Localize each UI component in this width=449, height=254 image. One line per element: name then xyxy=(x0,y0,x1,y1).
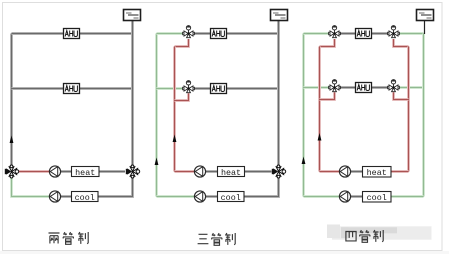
3-way valve V4 (panel2 row2) xyxy=(183,81,195,93)
wire: panel2 heat pump to heat box xyxy=(206,170,218,173)
3-way valve V3 (panel2 row1) xyxy=(183,26,195,38)
wire: panel3 red drop row1 left xyxy=(320,39,335,47)
wire: panel3 red right vertical xyxy=(407,47,410,172)
wire: panel1 left supply vertical xyxy=(10,34,13,167)
wire: panel2 valve2 to AHU2 xyxy=(194,87,211,90)
cool source box (panel3) xyxy=(363,192,392,204)
svg-text:heat: heat xyxy=(75,168,95,178)
char ZHI xyxy=(225,233,235,245)
wire: panel2 common return vertical xyxy=(277,21,280,167)
AHU box (panel2 row2) xyxy=(211,84,227,94)
wire: panel3 green from cool box to right vertical xyxy=(391,195,424,198)
wire: panel1 hot supply stub (red) xyxy=(14,170,50,173)
3-way valve V8 (panel3 row1 right) xyxy=(388,26,400,38)
cool source box (panel1) xyxy=(72,192,99,204)
watermark dark tab xyxy=(341,227,349,238)
wire: panel2 green supply vertical xyxy=(155,34,158,197)
wire: panel2 red supply vertical xyxy=(173,47,176,172)
wire: panel3 tank stem xyxy=(424,21,426,35)
wire: panel1 heat pump to heat box xyxy=(61,170,72,173)
flow arrow (panel2 green) xyxy=(155,158,159,166)
wire: panel1 second row horizontal xyxy=(12,87,133,90)
svg-text:cool: cool xyxy=(221,193,241,203)
wire: panel3 red drop row1 right xyxy=(394,39,409,47)
wire: panel3 green to cool pump xyxy=(304,195,340,198)
label: two-pipe system (CJK glyph strokes) xyxy=(49,232,89,244)
svg-text:heat: heat xyxy=(367,168,387,178)
wire: panel2 cool box to valve riser xyxy=(244,178,279,197)
wire: panel2 valve1 to AHU1 xyxy=(194,32,211,35)
char GUAN xyxy=(212,233,223,245)
3-way valve V6 (panel3 row1 left) xyxy=(329,26,341,38)
4-way valve V2 (panel1 right) xyxy=(126,165,140,178)
expansion tank T1 xyxy=(124,10,141,21)
pump P5 heat (panel3) xyxy=(339,166,350,177)
wire: panel2 red branch row2 xyxy=(175,93,189,100)
wire: panel1 heat box to right valve xyxy=(99,170,125,173)
wire: panel3 valveL2 to AHU2 xyxy=(340,86,356,89)
wire: panel2 green row1 stub xyxy=(157,32,184,35)
label: four-pipe system (CJK glyph strokes) xyxy=(346,230,383,242)
char ZHI xyxy=(78,232,88,244)
4-way valve V1 (panel1 left) xyxy=(5,165,19,178)
wire: panel3 red left vertical xyxy=(318,47,321,172)
wire: panel2 cool pump to cool box xyxy=(206,195,218,198)
wire: panel2 AHU2 to return xyxy=(227,87,279,90)
3-way valve V9 (panel3 row2 right) xyxy=(388,80,400,92)
AHU box (panel1 row1) xyxy=(64,29,80,39)
char GUAN xyxy=(360,230,371,242)
wire: panel2 red to heat pump xyxy=(175,170,195,173)
char GUAN xyxy=(63,232,74,244)
wire: panel2 AHU1 to return xyxy=(227,32,279,35)
pump P1 heat (panel1) xyxy=(49,166,60,177)
3-way valve V7 (panel3 row2 left) xyxy=(329,80,341,92)
wire: panel3 red branch row2 left xyxy=(320,92,335,99)
svg-text:heat: heat xyxy=(221,168,241,178)
pump P6 cool (panel3) xyxy=(339,191,350,202)
wire: panel3 red from heat box to right vertical xyxy=(391,170,409,173)
flow arrow (panel3 red) xyxy=(318,133,322,141)
pump P2 cool (panel1) xyxy=(49,191,60,202)
char SI xyxy=(346,232,356,241)
expansion tank T2 xyxy=(271,10,288,21)
wire: panel3 green row2 left stub xyxy=(304,86,330,89)
flow arrow (panel3 green) xyxy=(302,157,306,165)
heat source box (panel1) xyxy=(72,167,100,179)
svg-text:cool: cool xyxy=(75,193,95,203)
heat source box (panel2) xyxy=(218,167,245,179)
char LIANG xyxy=(49,233,60,244)
AHU box (panel3 row2) xyxy=(356,83,372,93)
pump P4 cool (panel2) xyxy=(194,191,205,202)
wire: panel1 top row horizontal xyxy=(12,32,133,35)
wire: panel2 green row2 stub xyxy=(157,87,184,90)
wire: panel3 valveL1 to AHU1 xyxy=(340,32,356,35)
wire: panel3 red branch row2 right xyxy=(394,92,409,99)
wire: panel3 AHU2 to valveR2 xyxy=(372,86,389,89)
wire: panel1 cold riser (green) xyxy=(12,178,50,197)
AHU box (panel3 row1) xyxy=(356,29,372,39)
svg-text:cool: cool xyxy=(367,193,387,203)
label: three-pipe system (CJK glyph strokes) xyxy=(198,233,236,245)
watermark blob small xyxy=(327,225,340,239)
wire: panel3 green right vertical xyxy=(422,34,425,197)
wire: panel1 cool box to right valve riser xyxy=(98,178,133,197)
wire: panel3 heat pump to heat box xyxy=(351,170,363,173)
pump P3 heat (panel2) xyxy=(194,166,205,177)
AHU box (panel1 row2) xyxy=(64,84,80,94)
wire: panel3 green row2 right stub xyxy=(399,86,424,89)
wire: panel2 heat box to 4way valve xyxy=(245,170,272,173)
watermark blob behind label xyxy=(332,226,432,239)
wire: panel2 green to cool pump xyxy=(157,195,195,198)
wire: panel1 right return vertical from tank xyxy=(131,21,134,167)
watermark dark band xyxy=(341,227,397,233)
char SAN xyxy=(198,234,209,243)
wire: panel1 cool pump to cool box xyxy=(61,195,72,198)
4-way valve V5 (panel2) xyxy=(272,165,286,178)
wire: panel3 green row1 left stub xyxy=(304,32,330,35)
AHU box (panel2 row1) xyxy=(211,29,227,39)
wire: panel3 cool pump to cool box xyxy=(351,195,363,198)
bottom strip xyxy=(0,251,449,254)
wire: panel3 green row1 right stub xyxy=(399,32,424,35)
wire: panel3 AHU1 to valveR1 xyxy=(372,32,389,35)
flow arrow (panel1 supply) xyxy=(10,136,14,144)
expansion tank T3 xyxy=(417,10,434,21)
flow arrow (panel2 red) xyxy=(173,135,177,143)
wire: panel3 red to heat pump xyxy=(320,170,340,173)
char ZHI xyxy=(373,230,383,242)
cool source box (panel2) xyxy=(218,192,245,204)
wire: panel2 red drop row1 xyxy=(175,39,189,47)
heat source box (panel3) xyxy=(363,167,392,179)
wire: panel3 green left vertical xyxy=(302,34,305,197)
